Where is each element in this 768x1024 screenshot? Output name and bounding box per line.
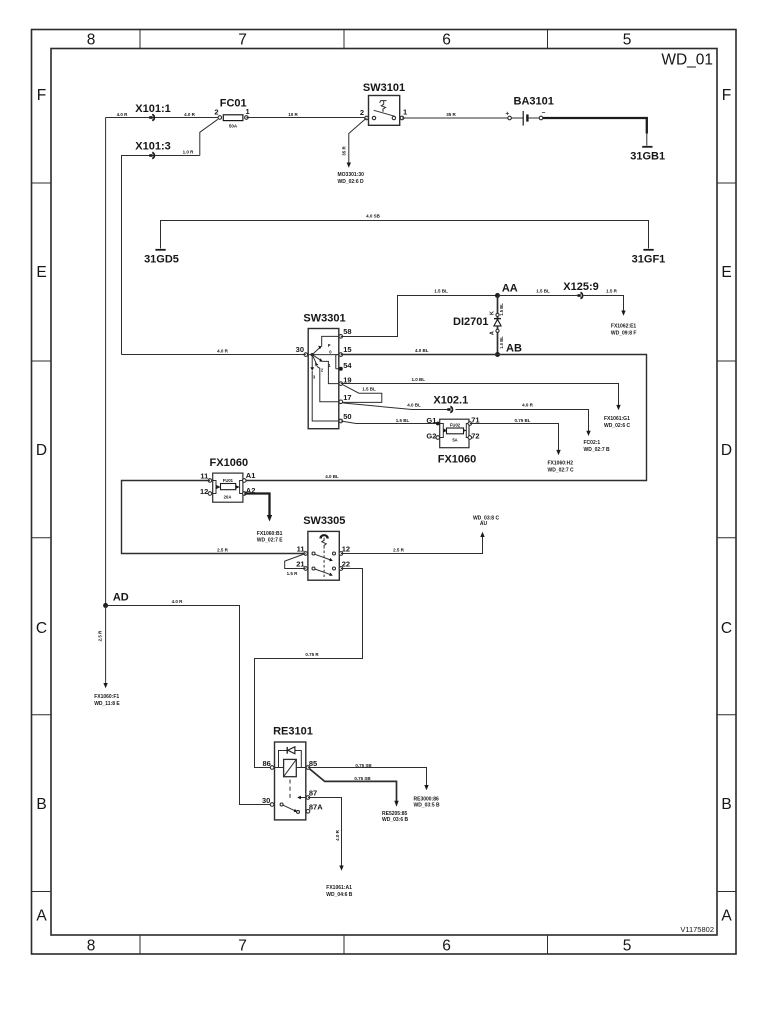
pin A2 of FX1060	[243, 492, 247, 496]
suppression diode loop	[279, 751, 302, 768]
fuse body FU01	[221, 484, 236, 490]
relay body RE3101	[275, 742, 306, 820]
svg-text:D: D	[36, 442, 47, 459]
svg-text:RE3101: RE3101	[273, 726, 313, 738]
svg-text:7: 7	[238, 938, 247, 955]
svg-text:2.5 R: 2.5 R	[98, 630, 103, 642]
actuator button SW3305	[320, 535, 328, 538]
svg-text:1.5 R: 1.5 R	[606, 289, 618, 294]
svg-text:AA: AA	[502, 283, 518, 295]
svg-text:2: 2	[360, 108, 364, 117]
link bar pins 15-54	[336, 355, 341, 369]
pin 22 of SW3305	[339, 567, 343, 571]
wire FX1060 pin 11 loop down to SW3305	[122, 481, 306, 554]
svg-text:FX1060:F1: FX1060:F1	[94, 694, 119, 700]
svg-text:87: 87	[309, 788, 317, 797]
node AB	[495, 352, 500, 357]
wire FX1060 pin 71 to FX1060:H2 arrow	[470, 418, 574, 474]
svg-text:1.0 BL: 1.0 BL	[499, 336, 504, 349]
ground 31GD5	[144, 237, 179, 266]
switch blade upper SW3305	[315, 554, 331, 560]
actuator symbol SW3101	[380, 101, 387, 112]
svg-text:FX1062:E1: FX1062:E1	[611, 324, 637, 330]
svg-text:4.0 R: 4.0 R	[172, 599, 184, 604]
svg-text:0.75 SB: 0.75 SB	[355, 763, 372, 768]
grid numbers top	[87, 32, 632, 49]
border column ticks bottom	[140, 935, 548, 954]
border frame inner	[51, 49, 717, 936]
svg-text:22: 22	[342, 559, 350, 568]
svg-text:1.5 BL: 1.5 BL	[362, 387, 376, 392]
pin 87 of RE3101	[306, 796, 310, 800]
pin 58 of SW3301	[339, 335, 343, 339]
svg-text:WD_02:7 E: WD_02:7 E	[257, 537, 284, 543]
svg-text:B: B	[721, 796, 731, 813]
battery plate positive	[522, 111, 524, 126]
pin 2 of SW3101	[365, 116, 369, 120]
svg-text:85: 85	[309, 759, 317, 768]
fuse holder body FX1060 (FU01)	[213, 473, 243, 502]
svg-text:AD: AD	[113, 592, 129, 604]
svg-text:FX1060: FX1060	[210, 457, 249, 469]
wire pin 15 through AB to right loop down to FX1060 A1	[244, 355, 646, 481]
svg-text:5: 5	[623, 32, 632, 49]
svg-text:FU02: FU02	[450, 423, 461, 428]
grid letters right	[721, 87, 732, 925]
svg-text:WD_03:6 B: WD_03:6 B	[382, 817, 409, 823]
contact circles SW3101	[372, 116, 375, 119]
wire X125:9 to FX1062 arrow	[583, 289, 636, 337]
svg-text:C: C	[36, 620, 47, 637]
relay coil	[284, 759, 297, 776]
svg-text:1.5 BL: 1.5 BL	[396, 418, 410, 423]
svg-text:35 R: 35 R	[342, 146, 347, 156]
svg-text:10 R: 10 R	[288, 112, 298, 117]
svg-text:FX1060:B1: FX1060:B1	[257, 531, 283, 537]
wire RE3101 pin 85 to RE5205:85 arrow	[310, 769, 409, 823]
wire X101:3 horizontal and vertical to SW3301 pin 30	[122, 119, 218, 354]
wire pin 19 to FX1061:G1 arrow	[341, 377, 631, 429]
svg-text:WD_02:7 C: WD_02:7 C	[548, 467, 575, 473]
ground 31GF1	[632, 237, 666, 266]
wire SW3305 pin 22 loop to RE3101 pin 86	[255, 569, 363, 768]
battery plate negative	[526, 114, 528, 121]
wire pin 58 to node AA	[341, 296, 498, 337]
switch SW3101	[360, 82, 407, 125]
svg-text:6: 6	[442, 32, 451, 49]
wire AD down to FX1060:F1 arrow	[94, 606, 120, 708]
svg-text:4.0 R: 4.0 R	[117, 112, 129, 117]
wire RE3101 pin 87 to FX1061:A1 arrow	[308, 798, 353, 898]
svg-text:WD_01: WD_01	[661, 52, 713, 69]
switch SW3305	[296, 515, 350, 580]
svg-text:WD_02:7 B: WD_02:7 B	[584, 447, 611, 453]
pin 50 of SW3301	[339, 419, 343, 423]
svg-text:FX1060:H2: FX1060:H2	[548, 460, 574, 466]
svg-text:11: 11	[200, 472, 208, 481]
pin 72 of FX1060	[468, 436, 472, 440]
svg-text:8: 8	[87, 32, 96, 49]
node AD	[103, 603, 108, 608]
svg-text:4.0 BL: 4.0 BL	[325, 474, 339, 479]
svg-text:4.0 R: 4.0 R	[522, 402, 534, 407]
pin 12 of SW3305	[339, 552, 343, 556]
svg-text:7: 7	[238, 32, 247, 49]
svg-text:X102.1: X102.1	[433, 395, 468, 407]
grid letters left	[36, 87, 47, 925]
svg-text:4.0 BL: 4.0 BL	[407, 402, 421, 407]
svg-text:SW3305: SW3305	[303, 515, 345, 527]
wire SW3101 to battery	[402, 117, 510, 119]
battery positive terminal	[508, 116, 512, 120]
fuse FX1060 (FU02 5A)	[426, 416, 479, 466]
svg-text:A1: A1	[246, 471, 256, 480]
wire ground strap 4.0 SB	[161, 221, 649, 237]
svg-text:0.75 BL: 0.75 BL	[514, 418, 530, 423]
pin 86 of RE3101	[270, 766, 274, 770]
svg-text:A: A	[36, 908, 47, 925]
svg-text:1: 1	[403, 108, 407, 117]
switch blade lower SW3305	[315, 569, 331, 575]
svg-text:31GD5: 31GD5	[144, 254, 179, 266]
battery BA3101	[505, 96, 553, 126]
svg-text:1.0 R: 1.0 R	[183, 150, 195, 155]
pin 30 of RE3101	[270, 803, 274, 807]
svg-text:11: 11	[297, 545, 305, 554]
wire left main vertical from X101:1 feed down to node AD	[105, 118, 107, 606]
pin 2 of FC01	[218, 116, 222, 120]
svg-text:AB: AB	[506, 343, 522, 355]
border column ticks top	[140, 30, 548, 49]
svg-text:P: P	[328, 343, 331, 348]
svg-text:4.0 BL: 4.0 BL	[415, 348, 429, 353]
svg-text:12: 12	[342, 545, 350, 554]
pin 85 of RE3101	[306, 766, 310, 770]
ignition switch SW3301	[296, 313, 353, 429]
svg-text:MO3301:30: MO3301:30	[338, 172, 365, 178]
svg-text:BA3101: BA3101	[514, 96, 554, 108]
svg-text:30: 30	[262, 796, 270, 805]
svg-text:58: 58	[343, 327, 351, 336]
svg-text:6: 6	[442, 938, 451, 955]
svg-text:50A: 50A	[229, 124, 238, 129]
connector X125:9	[563, 281, 598, 299]
svg-text:A: A	[721, 908, 732, 925]
wire pin 50 to fuse FX1060 G1	[341, 421, 438, 424]
node AA	[495, 293, 500, 298]
internal wire to pin 58	[322, 336, 341, 346]
svg-text:X101:1: X101:1	[135, 103, 170, 115]
wire AA to X125:9	[498, 295, 578, 297]
pin 11 of SW3305	[304, 552, 308, 556]
svg-text:WD_04:6 B: WD_04:6 B	[326, 892, 353, 898]
svg-text:8: 8	[87, 938, 96, 955]
wire pin 17 to X102.1 and FC02 arrow	[343, 402, 610, 453]
wire FC01 to SW3101	[246, 117, 366, 119]
wiper hub SW3301	[311, 353, 314, 356]
fuse FX1060 (FU01 20A)	[200, 457, 255, 502]
svg-text:5: 5	[623, 938, 632, 955]
svg-text:4.0 SB: 4.0 SB	[366, 214, 381, 219]
wire SW3101 pin2 branch to MO3301 arrow	[338, 118, 367, 185]
switch body SW3301	[308, 329, 339, 429]
connector X102.1	[433, 395, 468, 413]
svg-text:FX1061:G1: FX1061:G1	[604, 416, 630, 422]
border row ticks left	[32, 183, 52, 892]
pin 1 of FC01	[245, 116, 249, 120]
switch blade SW3101	[374, 110, 395, 116]
pin 12 of FX1060	[208, 492, 212, 496]
internal wire to pin 17	[317, 366, 341, 402]
svg-text:1.5 BL: 1.5 BL	[499, 303, 504, 316]
svg-text:WD_09:8 F: WD_09:8 F	[611, 331, 637, 337]
svg-text:30: 30	[296, 345, 304, 354]
pin 71 of FX1060	[468, 422, 472, 426]
svg-text:2.5 R: 2.5 R	[393, 548, 405, 553]
svg-text:4.0 R: 4.0 R	[217, 349, 229, 354]
pin 87A of RE3101	[306, 810, 310, 814]
contact circles SW3305	[312, 552, 315, 555]
wire SW3301 pin30 feed	[122, 354, 306, 356]
pin G2 of FX1060	[436, 436, 440, 440]
svg-text:WD_03:5 B: WD_03:5 B	[414, 802, 441, 808]
pin A1 of FX1060	[243, 479, 247, 483]
svg-text:1.5 BL: 1.5 BL	[434, 289, 448, 294]
fuse body FU02	[447, 428, 464, 434]
pin G1 of FX1060	[436, 422, 440, 426]
svg-text:31GF1: 31GF1	[632, 254, 666, 266]
mechanical link dashed	[323, 551, 325, 578]
svg-text:31GB1: 31GB1	[630, 151, 665, 163]
svg-text:54: 54	[343, 361, 352, 370]
pin 30 of SW3301	[304, 353, 308, 357]
svg-text:17: 17	[343, 393, 351, 402]
svg-text:50: 50	[343, 412, 351, 421]
diode DI2701 branch	[453, 296, 504, 355]
svg-text:21: 21	[296, 559, 304, 568]
svg-text:87A: 87A	[309, 802, 323, 811]
fuse body FC01	[223, 115, 243, 121]
wire thick FX1060 A2 to FX1060:B1 arrow	[244, 494, 283, 544]
contact 87 stub	[300, 797, 308, 799]
svg-text:FU01: FU01	[223, 478, 234, 483]
svg-text:2: 2	[214, 108, 218, 117]
svg-text:0.75 SB: 0.75 SB	[354, 776, 371, 781]
pin 21 of SW3305	[304, 567, 308, 571]
ground 31GB1	[630, 134, 665, 163]
connector X101:3	[135, 141, 170, 159]
svg-text:FX1060: FX1060	[438, 453, 477, 465]
pin 17 of SW3301	[339, 400, 343, 404]
relay RE3101	[262, 726, 323, 820]
svg-text:C: C	[721, 620, 732, 637]
svg-text:G1: G1	[426, 416, 436, 425]
svg-text:F: F	[722, 87, 731, 104]
svg-text:+: +	[505, 111, 509, 118]
fuse holder body FX1060 (FU02)	[440, 419, 469, 448]
pin 54 of SW3301	[339, 367, 343, 371]
svg-text:WD_02:6 C: WD_02:6 C	[604, 423, 631, 429]
internal wire to pin 19	[323, 361, 341, 383]
grid numbers bottom	[87, 938, 632, 955]
switch body SW3305	[308, 531, 339, 580]
svg-text:4.0 R: 4.0 R	[335, 829, 340, 841]
svg-text:X101:3: X101:3	[135, 141, 170, 153]
svg-text:12: 12	[200, 487, 208, 496]
svg-text:72: 72	[471, 432, 479, 441]
svg-text:1.5 R: 1.5 R	[287, 571, 299, 576]
svg-text:20A: 20A	[224, 494, 232, 499]
svg-text:86: 86	[262, 759, 270, 768]
svg-text:D: D	[721, 442, 732, 459]
svg-text:1.0 BL: 1.0 BL	[412, 377, 426, 382]
svg-text:K: K	[490, 311, 496, 315]
relay contact common	[280, 803, 283, 806]
pin 11 of FX1060	[208, 479, 212, 483]
wire thick battery negative to ground	[543, 118, 647, 134]
svg-text:X125:9: X125:9	[563, 281, 598, 293]
internal wire to pin 50	[312, 371, 341, 421]
svg-text:A: A	[490, 331, 496, 335]
border row ticks right	[717, 183, 736, 892]
svg-text:F: F	[37, 87, 46, 104]
wire SW3305 pin 12 to WD_03:8 arrow	[341, 516, 499, 554]
svg-text:E: E	[36, 264, 46, 281]
svg-text:FC02:1: FC02:1	[584, 440, 601, 446]
svg-text:AU: AU	[480, 521, 488, 527]
battery negative terminal	[539, 116, 543, 120]
pin 19 of SW3301	[339, 382, 343, 386]
svg-text:DI2701: DI2701	[453, 316, 488, 328]
switch body SW3101	[369, 96, 400, 126]
svg-text:1.5 BL: 1.5 BL	[536, 289, 550, 294]
svg-text:SW3101: SW3101	[363, 82, 405, 94]
svg-text:4.0 R: 4.0 R	[184, 112, 196, 117]
wire jumper SW3305 11 to 21	[285, 554, 306, 569]
svg-text:0.75 R: 0.75 R	[305, 652, 319, 657]
svg-text:35 R: 35 R	[446, 112, 456, 117]
svg-text:−: −	[542, 110, 546, 117]
svg-text:V1175802: V1175802	[680, 925, 714, 934]
wire strap pin 19 to pin 17	[342, 384, 382, 402]
svg-text:G2: G2	[426, 432, 436, 441]
fuse FC01	[214, 98, 249, 129]
svg-text:FX1061:A1: FX1061:A1	[326, 885, 352, 891]
svg-text:SW3301: SW3301	[303, 313, 345, 325]
mechanical link dashed	[289, 780, 291, 802]
wire AD to relay RE3101 pin 30	[106, 606, 273, 805]
connector X101:1	[135, 103, 170, 121]
pin 15 of SW3301	[339, 353, 343, 357]
svg-text:FC01: FC01	[220, 98, 247, 110]
wire RE3101 pin 85 to RE3000:86 arrow	[308, 763, 440, 809]
svg-text:WD_02:6 D: WD_02:6 D	[338, 179, 365, 185]
wire X101:1 feed horizontal	[106, 117, 220, 119]
relay blade	[283, 805, 295, 811]
svg-text:B: B	[36, 796, 46, 813]
pin 1 of SW3101	[400, 116, 404, 120]
svg-text:15: 15	[343, 345, 351, 354]
svg-text:WD_11:8 E: WD_11:8 E	[94, 701, 120, 707]
svg-text:E: E	[721, 264, 731, 281]
svg-text:5A: 5A	[452, 437, 457, 442]
svg-text:2.5 R: 2.5 R	[217, 548, 229, 553]
